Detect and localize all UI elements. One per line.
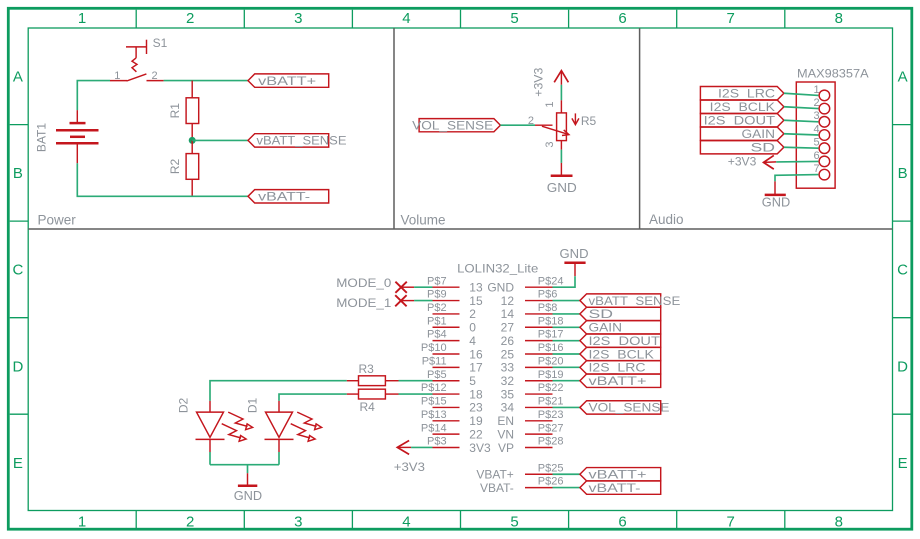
supply +3V3 (audio)	[728, 154, 776, 169]
svg-text:S1: S1	[153, 36, 168, 50]
wire P$17 to net label I2S_DOUT	[553, 340, 580, 342]
svg-text:Audio: Audio	[649, 212, 684, 227]
section Audio	[649, 212, 684, 227]
svg-text:SD: SD	[751, 141, 776, 155]
ground (LED)	[234, 473, 262, 503]
pin P$8 (right)	[501, 302, 558, 321]
pin P$7 (left)	[427, 275, 483, 294]
wire LED cathodes to GND	[210, 452, 279, 473]
svg-text:D: D	[12, 358, 23, 375]
svg-text:VOL_SENSE: VOL_SENSE	[412, 119, 493, 133]
net label vBATT_SENSE	[248, 134, 347, 148]
svg-text:P$11: P$11	[422, 355, 447, 367]
wire pin 7 to GND	[775, 175, 818, 182]
pin P$11 (left)	[422, 355, 483, 374]
svg-text:P$18: P$18	[538, 315, 564, 327]
net label I2S_DOUT	[700, 114, 784, 128]
svg-text:P$23: P$23	[538, 409, 564, 421]
wire R5 pin 3 to GND	[560, 150, 562, 163]
svg-text:VBAT+: VBAT+	[476, 468, 513, 482]
wire D1 to R4	[279, 394, 347, 401]
net label I2S_LRC	[700, 87, 784, 101]
svg-text:0: 0	[469, 321, 476, 335]
svg-text:P$17: P$17	[538, 329, 564, 341]
switch S1	[110, 36, 168, 82]
svg-text:+3V3: +3V3	[394, 460, 425, 474]
svg-text:3: 3	[544, 141, 556, 147]
wire SD to pin 5	[784, 146, 819, 149]
svg-text:R3: R3	[359, 362, 375, 376]
svg-text:1: 1	[114, 70, 120, 82]
svg-text:vBATT+: vBATT+	[589, 468, 647, 482]
svg-text:I2S_DOUT: I2S_DOUT	[704, 114, 776, 128]
wire P$21 to net label VOL_SENSE	[553, 406, 580, 408]
svg-text:P$9: P$9	[427, 289, 447, 301]
pin P$4 (left)	[427, 329, 476, 348]
svg-text:13: 13	[469, 281, 483, 295]
svg-text:6: 6	[618, 513, 626, 530]
no-connect cross MODE_0	[395, 282, 406, 293]
net label vBATT+ (row 14)	[580, 468, 661, 482]
net label vBATT+	[248, 74, 329, 88]
svg-text:27: 27	[501, 321, 515, 335]
net label vBATT- (row 15)	[580, 481, 661, 495]
svg-text:P$12: P$12	[421, 382, 447, 394]
wire I2S_BCLK to pin 2	[784, 107, 819, 109]
svg-text:vBATT-: vBATT-	[589, 481, 641, 495]
svg-text:P$20: P$20	[538, 355, 564, 367]
svg-text:3: 3	[813, 110, 819, 122]
svg-text:LOLIN32_Lite: LOLIN32_Lite	[457, 261, 539, 275]
svg-text:4: 4	[402, 513, 410, 530]
svg-text:2: 2	[186, 10, 194, 27]
svg-text:33: 33	[501, 361, 515, 375]
svg-text:P$8: P$8	[538, 302, 558, 314]
svg-text:D1: D1	[246, 398, 260, 414]
svg-text:P$14: P$14	[421, 422, 447, 434]
svg-text:vBATT-: vBATT-	[258, 190, 310, 204]
svg-text:I2S_DOUT: I2S_DOUT	[589, 334, 661, 348]
svg-text:R1: R1	[168, 103, 182, 119]
no-connect cross MODE_1	[395, 295, 406, 306]
net label vBATT-	[248, 190, 329, 204]
pin P$1 (left)	[427, 315, 476, 334]
pin P$16 (right)	[501, 342, 564, 361]
resistor R4	[347, 389, 399, 414]
net label I2S_DOUT (row 4)	[580, 334, 661, 348]
net label I2S_BCLK (row 5)	[580, 347, 661, 361]
net label I2S_BCLK	[700, 100, 784, 114]
svg-text:3V3: 3V3	[469, 441, 491, 455]
pin P$12 (left)	[421, 382, 483, 401]
svg-text:5: 5	[813, 137, 819, 149]
svg-text:2: 2	[186, 513, 194, 530]
svg-text:Volume: Volume	[401, 213, 446, 228]
pin P$2 (left)	[427, 302, 476, 321]
wire +3V3 to P$3	[411, 446, 432, 448]
LED D2	[177, 398, 253, 452]
svg-text:P$21: P$21	[538, 396, 564, 408]
svg-text:P$4: P$4	[427, 329, 447, 341]
wire switch to vBATT+	[164, 80, 248, 82]
svg-text:P$15: P$15	[421, 396, 447, 408]
svg-text:35: 35	[501, 387, 515, 401]
svg-text:8: 8	[835, 513, 843, 530]
svg-text:P$7: P$7	[427, 275, 447, 287]
svg-text:2: 2	[813, 97, 819, 109]
pin P$18 (right)	[501, 315, 564, 334]
resistor R2	[168, 140, 199, 196]
svg-text:4: 4	[813, 123, 819, 135]
svg-text:I2S_BCLK: I2S_BCLK	[710, 100, 775, 114]
net label SD	[700, 141, 784, 155]
pin P$21 (right)	[501, 396, 564, 415]
wire I2S_DOUT to pin 3	[784, 120, 819, 122]
svg-text:3: 3	[294, 513, 302, 530]
battery BAT1	[35, 110, 99, 163]
svg-text:4: 4	[469, 334, 476, 348]
resistor R1	[168, 81, 199, 141]
svg-text:I2S_BCLK: I2S_BCLK	[589, 347, 654, 361]
svg-text:5: 5	[510, 513, 518, 530]
svg-text:+3V3: +3V3	[728, 154, 757, 168]
svg-text:7: 7	[727, 10, 735, 27]
wire I2S_LRC to pin 1	[784, 93, 819, 95]
wire P$26 to net label vBATT-	[553, 487, 580, 489]
svg-text:2: 2	[151, 70, 157, 82]
pin P$13 (left)	[421, 409, 483, 428]
pin P$25 (right)	[476, 462, 563, 481]
svg-text:I2S_LRC: I2S_LRC	[718, 87, 775, 101]
net label SD (row 2)	[580, 307, 661, 321]
svg-text:BAT1: BAT1	[35, 123, 49, 152]
svg-text:25: 25	[501, 347, 515, 361]
svg-text:22: 22	[469, 427, 483, 441]
svg-text:15: 15	[469, 294, 483, 308]
svg-text:26: 26	[501, 334, 515, 348]
ground (audio)	[762, 181, 790, 209]
svg-text:vBATT_SENSE: vBATT_SENSE	[257, 134, 347, 148]
svg-text:1: 1	[78, 10, 86, 27]
pin P$17 (right)	[501, 329, 564, 348]
svg-text:4: 4	[402, 10, 410, 27]
svg-text:GND: GND	[762, 194, 790, 209]
section Volume	[401, 28, 640, 229]
svg-text:GND: GND	[487, 281, 514, 295]
wire P$18 to net label GAIN	[553, 326, 580, 328]
svg-text:6: 6	[618, 10, 626, 27]
svg-text:MAX98357A: MAX98357A	[797, 66, 869, 80]
svg-text:R4: R4	[360, 400, 376, 414]
svg-text:EN: EN	[497, 414, 514, 428]
svg-text:R5: R5	[581, 114, 597, 128]
wire P$19 to net label vBATT+	[553, 380, 580, 382]
svg-text:1: 1	[544, 101, 556, 107]
svg-text:GND: GND	[234, 488, 262, 503]
pin P$24 (right)	[487, 275, 563, 294]
net label GAIN	[700, 127, 784, 141]
net label VOL_SENSE (row 9)	[580, 401, 670, 415]
svg-text:P$22: P$22	[538, 382, 564, 394]
wire R3 to P$5	[399, 380, 433, 382]
LED D1	[246, 398, 322, 452]
pin P$10 (left)	[421, 342, 483, 361]
svg-text:Power: Power	[38, 213, 77, 228]
pin P$23 (right)	[497, 409, 563, 428]
svg-text:16: 16	[469, 347, 483, 361]
svg-text:P$6: P$6	[538, 289, 558, 301]
svg-text:D: D	[897, 358, 908, 375]
supply +3V3 (LOLIN P$3)	[394, 441, 425, 475]
wire +3V3 to R5 pin 1	[560, 85, 562, 101]
svg-text:P$28: P$28	[538, 436, 564, 448]
wire VOL_SENSE to R5 pin 2	[500, 124, 535, 126]
svg-text:1: 1	[78, 513, 86, 530]
net label VOL_SENSE	[412, 119, 500, 133]
svg-text:vBATT+: vBATT+	[258, 74, 316, 88]
svg-text:A: A	[13, 69, 23, 86]
svg-text:P$16: P$16	[538, 342, 564, 354]
wire GAIN to pin 4	[784, 134, 819, 135]
svg-text:32: 32	[501, 374, 515, 388]
wire MODE_1 to P$9	[401, 300, 433, 302]
svg-text:VOL_SENSE: VOL_SENSE	[589, 401, 670, 415]
wire junction to vBATT_SENSE label	[192, 139, 248, 141]
pin P$14 (left)	[421, 422, 483, 441]
pin P$6 (right)	[501, 289, 558, 308]
pin P$15 (left)	[421, 396, 483, 415]
wire +3V3 to pin 6	[776, 160, 818, 163]
wire D2 to R3	[210, 381, 347, 401]
net label vBATT_SENSE (row 1)	[580, 294, 680, 308]
net label I2S_LRC (row 6)	[580, 361, 661, 375]
svg-text:18: 18	[469, 387, 483, 401]
svg-text:D2: D2	[177, 398, 191, 414]
svg-text:E: E	[13, 455, 23, 472]
svg-text:GAIN: GAIN	[589, 321, 623, 335]
svg-text:P$26: P$26	[538, 476, 564, 488]
svg-text:P$1: P$1	[427, 315, 447, 327]
svg-text:P$24: P$24	[538, 275, 564, 287]
svg-text:7: 7	[813, 163, 819, 175]
resistor R3	[347, 362, 399, 385]
svg-text:P$3: P$3	[427, 436, 447, 448]
svg-text:VN: VN	[497, 427, 514, 441]
svg-text:17: 17	[469, 361, 483, 375]
svg-text:1: 1	[813, 84, 819, 96]
svg-text:3: 3	[294, 10, 302, 27]
pin P$19 (right)	[501, 369, 564, 388]
svg-text:R2: R2	[168, 159, 182, 175]
wire P$25 to net label vBATT+	[553, 473, 580, 475]
svg-text:C: C	[12, 262, 23, 279]
svg-text:P$27: P$27	[538, 422, 564, 434]
pin P$27 (right)	[497, 422, 563, 441]
wire R4 to P$12	[399, 393, 433, 395]
svg-text:SD: SD	[589, 307, 614, 321]
svg-text:2: 2	[469, 307, 476, 321]
pin P$26 (right)	[480, 476, 564, 495]
pin P$9 (left)	[427, 289, 483, 308]
wire P$24 to GND	[553, 276, 576, 287]
pin P$3 (left)	[427, 436, 491, 455]
svg-text:5: 5	[510, 10, 518, 27]
potentiometer R5	[528, 100, 597, 149]
supply +3V3 (volume)	[531, 67, 568, 96]
svg-text:MODE_1: MODE_1	[336, 296, 391, 310]
svg-text:14: 14	[501, 307, 515, 321]
svg-text:19: 19	[469, 414, 483, 428]
svg-text:C: C	[897, 262, 908, 279]
svg-text:MODE_0: MODE_0	[336, 276, 391, 290]
svg-text:GND: GND	[560, 246, 589, 261]
svg-text:B: B	[13, 165, 23, 182]
junction node vBATT_SENSE	[189, 137, 196, 144]
svg-text:VBAT-: VBAT-	[480, 481, 514, 495]
ground (volume)	[547, 163, 577, 195]
wire P$20 to net label I2S_LRC	[553, 366, 580, 368]
svg-text:vBATT_SENSE: vBATT_SENSE	[589, 294, 681, 308]
pin P$22 (right)	[501, 382, 564, 401]
wire P$16 to net label I2S_BCLK	[553, 353, 580, 355]
svg-text:P$25: P$25	[538, 462, 564, 474]
svg-text:5: 5	[469, 374, 476, 388]
svg-text:2: 2	[528, 115, 534, 127]
svg-text:A: A	[898, 69, 908, 86]
svg-text:GND: GND	[547, 180, 577, 195]
pin P$28 (right)	[498, 436, 564, 455]
svg-text:12: 12	[501, 294, 515, 308]
svg-text:E: E	[898, 455, 908, 472]
pin P$5 (left)	[427, 369, 476, 388]
wire battery top to switch	[77, 81, 110, 111]
svg-text:GAIN: GAIN	[742, 127, 776, 141]
connector MAX98357A	[796, 66, 868, 188]
svg-text:P$13: P$13	[421, 409, 447, 421]
ground (LOLIN P$24)	[560, 246, 589, 276]
svg-text:+3V3: +3V3	[531, 67, 545, 96]
svg-text:8: 8	[835, 10, 843, 27]
svg-text:VP: VP	[498, 441, 514, 455]
wire battery bottom rail	[77, 163, 248, 196]
wire P$6 to net label vBATT_SENSE	[553, 300, 580, 302]
svg-text:6: 6	[813, 150, 819, 162]
svg-text:vBATT+: vBATT+	[589, 374, 647, 388]
svg-text:23: 23	[469, 401, 483, 415]
svg-text:34: 34	[501, 401, 515, 415]
svg-text:I2S_LRC: I2S_LRC	[589, 361, 646, 375]
pin P$20 (right)	[501, 355, 564, 374]
net label vBATT+ (row 7)	[580, 374, 661, 388]
svg-text:P$10: P$10	[421, 342, 447, 354]
svg-text:B: B	[898, 165, 908, 182]
svg-text:P$2: P$2	[427, 302, 447, 314]
section Power	[28, 28, 892, 229]
net label GAIN (row 3)	[580, 321, 661, 335]
wire MODE_0 to P$7	[401, 286, 432, 288]
svg-text:P$19: P$19	[538, 369, 564, 381]
svg-text:7: 7	[727, 513, 735, 530]
svg-text:P$5: P$5	[427, 369, 447, 381]
wire P$8 to net label SD	[553, 313, 580, 315]
